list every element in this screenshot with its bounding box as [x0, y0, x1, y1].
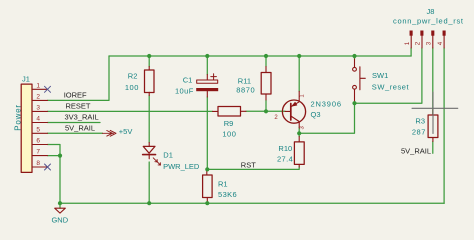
resistor R9 [213, 107, 247, 117]
svg-text:C1: C1 [183, 76, 193, 85]
svg-text:3: 3 [36, 104, 40, 111]
svg-text:7: 7 [36, 149, 40, 156]
svg-text:3V3_RAIL: 3V3_RAIL [65, 113, 99, 122]
J1 pin 4 [32, 122, 48, 124]
wire C1 bottom to RST junction [206, 97, 208, 169]
wire C1 top stub from rail [206, 56, 208, 75]
svg-text:R1: R1 [218, 179, 228, 188]
capacitor C1 [196, 74, 218, 97]
svg-text:27.4: 27.4 [277, 155, 293, 164]
J1 pin numbers [36, 82, 40, 167]
wire J8 pin4 down to ground rail [443, 48, 445, 203]
wire RESET net J1 pin3 to R9 [48, 110, 213, 112]
transistor Q2N3906 Q3 [282, 91, 305, 127]
svg-text:conn_pwr_led_rst: conn_pwr_led_rst [393, 17, 464, 26]
wire J8 pin1 to top rail [410, 48, 412, 56]
svg-text:R9: R9 [224, 119, 234, 128]
svg-text:J8: J8 [427, 7, 435, 16]
connector J1 [21, 84, 47, 172]
svg-text:SW_reset: SW_reset [372, 83, 410, 92]
J1 pin 5 [32, 132, 48, 134]
svg-text:4: 4 [437, 41, 444, 45]
power symbol +5V arrow [103, 130, 117, 136]
resistor R10 [294, 137, 304, 168]
wire R3 bottom 5V_RAIL stub [432, 142, 434, 154]
svg-text:4: 4 [36, 116, 40, 123]
svg-text:PWR_LED: PWR_LED [163, 162, 200, 171]
svg-text:R2: R2 [128, 71, 138, 80]
wire base net R9 to Q3 [246, 110, 285, 112]
wire 5V_RAIL stub J1 pin5 [48, 132, 103, 134]
wire collector to SW1 bottom [299, 103, 354, 133]
wire R2 bottom to D1 anode [148, 96, 150, 143]
ground symbol GND [55, 203, 66, 213]
J8 pin numbers [404, 41, 444, 45]
wire left drop from top rail to J1 pin2 [48, 56, 110, 100]
net labels (black) [64, 91, 431, 170]
connector J8 [410, 31, 446, 49]
svg-text:R3: R3 [415, 116, 425, 125]
wire J1 pin7 to ground drop [48, 155, 61, 157]
svg-text:RST: RST [241, 160, 256, 169]
svg-text:R11: R11 [238, 77, 251, 86]
svg-text:GND: GND [51, 216, 68, 225]
wire Q3 emitter to top rail [298, 56, 300, 91]
resistor R11 [261, 67, 271, 101]
svg-text:D1: D1 [163, 150, 173, 159]
J1 pin 3 [32, 110, 48, 112]
wire bottom ground rail [60, 202, 444, 204]
svg-text:J1: J1 [22, 74, 30, 83]
wire top rail net [109, 55, 411, 57]
svg-text:5V_RAIL: 5V_RAIL [401, 147, 431, 156]
svg-text:287: 287 [412, 127, 426, 136]
svg-text:8870: 8870 [236, 86, 255, 95]
svg-text:SW1: SW1 [372, 71, 388, 80]
svg-text:IOREF: IOREF [64, 91, 87, 100]
svg-text:2N3906: 2N3906 [311, 99, 342, 108]
resistor R3 [428, 110, 438, 142]
J1 pin 1 [32, 88, 48, 90]
wire RST net to R10 bottom [207, 167, 299, 169]
svg-text:2: 2 [36, 93, 40, 100]
LED D1 [143, 143, 161, 166]
Q3 pin numbers [274, 94, 305, 130]
resistor R2 [145, 67, 155, 96]
wire D1 cathode to ground rail [148, 162, 150, 203]
J1 pin 8 [32, 166, 48, 168]
svg-text:1: 1 [36, 82, 40, 89]
svg-text:3: 3 [426, 41, 433, 45]
wire R2 top stub from rail [148, 56, 150, 67]
svg-text:Power: Power [14, 104, 23, 131]
wire SW1 top stub from rail [354, 56, 356, 59]
svg-text:1: 1 [404, 41, 411, 45]
resistor R1 [203, 170, 213, 203]
no-connect X pin8 [45, 164, 51, 170]
svg-text:5: 5 [36, 126, 40, 133]
J1 pin 7 [32, 155, 48, 157]
svg-text:10uF: 10uF [175, 86, 194, 95]
svg-text:5V_RAIL: 5V_RAIL [65, 124, 95, 133]
wire Q3 collector node [298, 128, 300, 134]
wire R11 top stub from rail [265, 56, 267, 67]
wire R11 bottom to base net [265, 100, 267, 111]
svg-text:8: 8 [36, 160, 40, 167]
cursor crosshair [412, 92, 458, 134]
svg-text:RESET: RESET [66, 102, 91, 111]
svg-text:Q3: Q3 [311, 110, 321, 119]
svg-text:2: 2 [415, 41, 422, 45]
J1 pin 6 [32, 144, 48, 146]
switch SW1 [353, 59, 366, 101]
wire J8 pin3 to R3 [432, 48, 434, 115]
wire 3V3_RAIL stub J1 pin4 [48, 122, 101, 124]
wire R10 top stub [298, 133, 300, 136]
svg-text:R10: R10 [278, 144, 292, 153]
svg-text:100: 100 [125, 83, 139, 92]
no-connect X pin1 [45, 86, 51, 92]
svg-text:+5V: +5V [119, 127, 133, 136]
svg-text:6: 6 [36, 138, 40, 145]
svg-text:100: 100 [222, 129, 236, 138]
wire J1 pin6 to ground drop [48, 145, 61, 204]
wire SW1 bottom to J8 pin2 [355, 48, 422, 103]
J1 pin 2 [32, 99, 48, 101]
svg-text:53K6: 53K6 [218, 190, 237, 199]
